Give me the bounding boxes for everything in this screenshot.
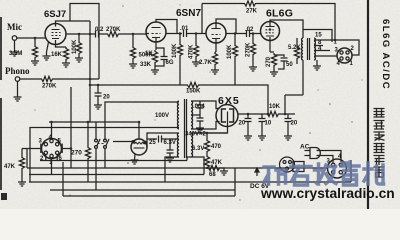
resistor 150K bbox=[186, 82, 200, 87]
socket P1 speaker bbox=[337, 48, 352, 63]
wire tap 15 bbox=[314, 39, 335, 41]
wire winding lower-right bottom bbox=[191, 157, 204, 175]
wire HV center tap bbox=[191, 114, 200, 116]
resistor 5.2K screen bbox=[296, 38, 298, 46]
wire winding lower-left top bbox=[147, 133, 179, 139]
svg-text:25: 25 bbox=[149, 140, 156, 146]
ground cap 20 first bbox=[97, 96, 99, 105]
ground after 68 bbox=[221, 168, 224, 171]
wire phono to artery bbox=[54, 78, 99, 80]
wire HV top tap bbox=[191, 101, 220, 109]
svg-text:100K: 100K bbox=[227, 44, 233, 59]
svg-text:.004: .004 bbox=[193, 104, 205, 110]
plug AC bbox=[305, 148, 321, 159]
ground under 100K bbox=[78, 55, 80, 58]
ground under 2.7K bbox=[214, 66, 216, 70]
watermark char ji bbox=[364, 163, 384, 184]
wire NFB to output bbox=[257, 4, 335, 41]
resistor 47K bias bbox=[206, 153, 208, 155]
svg-text:5.2K: 5.2K bbox=[288, 45, 301, 51]
svg-text:20: 20 bbox=[239, 121, 246, 127]
ground under Mic jack bbox=[11, 52, 19, 56]
ground under 3.5M bbox=[34, 59, 36, 61]
wire cap to 6L6G grid bbox=[250, 33, 261, 35]
label side CJK hatch glyphs bbox=[374, 109, 385, 178]
wire tap 8 bbox=[314, 45, 323, 47]
svg-text:470: 470 bbox=[211, 144, 222, 150]
svg-text:270: 270 bbox=[266, 56, 272, 67]
svg-text:6G: 6G bbox=[166, 60, 174, 66]
wire J2 to ground bbox=[17, 81, 19, 97]
watermark logo crystalradio bbox=[264, 162, 384, 185]
wire cathode 6L6G bbox=[270, 41, 274, 53]
wire plate 6L6G to OPT bbox=[270, 20, 303, 38]
svg-text:1K: 1K bbox=[145, 51, 153, 57]
scan speckles bbox=[34, 4, 362, 200]
ground under 470K bbox=[195, 58, 197, 62]
svg-text:3.5M: 3.5M bbox=[9, 51, 22, 57]
capacitor 20b filter bbox=[287, 114, 289, 118]
wire 270 to bus bbox=[87, 160, 89, 182]
wire socket top pin up bbox=[51, 122, 53, 139]
ground cap10 bbox=[261, 122, 263, 137]
node DC arrow bbox=[255, 168, 259, 176]
watermark char kuang bbox=[264, 167, 286, 184]
ground small lower bbox=[169, 153, 171, 158]
svg-text:AC: AC bbox=[300, 144, 310, 151]
wire plate loop 6SN7a bbox=[156, 20, 177, 34]
resistor 270K series bbox=[106, 31, 120, 36]
svg-text:0.2: 0.2 bbox=[95, 27, 104, 33]
capacitor 6G bypass bbox=[156, 48, 164, 56]
resistor 27K NFB bbox=[243, 1, 257, 6]
resistor 47K bbox=[21, 149, 23, 157]
ground under 33K bbox=[154, 64, 156, 70]
wire socket left bbox=[22, 148, 42, 150]
wire cap to resistor bbox=[99, 33, 106, 35]
wire lamp top bbox=[138, 122, 140, 139]
wire bus right bbox=[200, 85, 268, 114]
svg-text:100K: 100K bbox=[72, 39, 78, 54]
wire B+ bus bbox=[90, 84, 186, 86]
tube V4 6X5 bbox=[216, 105, 238, 127]
wire plate to cap bbox=[226, 33, 246, 35]
wire phono to resistor bbox=[20, 78, 40, 80]
svg-text:6SN7: 6SN7 bbox=[176, 8, 201, 19]
wire Mic to grid node bbox=[17, 37, 45, 39]
svg-text:270K: 270K bbox=[42, 84, 57, 90]
wire plate 6SN7a bbox=[166, 33, 182, 35]
wire B+ artery vertical bbox=[89, 21, 91, 122]
watermark char shou bbox=[315, 164, 337, 184]
wire OPT top to socket bbox=[303, 30, 332, 43]
socket X3 small bbox=[280, 157, 305, 172]
ground under 270K bbox=[252, 56, 254, 67]
svg-text:100K: 100K bbox=[172, 43, 178, 58]
resistor 270 heater bbox=[85, 146, 90, 160]
wire socket right bbox=[62, 148, 72, 150]
wire plate loop 6SN7b bbox=[216, 19, 236, 34]
resistor 100K interstage bbox=[179, 34, 181, 44]
svg-text:6L6G: 6L6G bbox=[266, 8, 293, 20]
resistor 270K phono bbox=[40, 76, 54, 81]
wire 270 drop bbox=[87, 122, 89, 146]
ground under lamp bbox=[134, 154, 137, 160]
capacitor 20a filter bbox=[247, 114, 249, 118]
wire heater bus y122 bbox=[49, 121, 139, 123]
wire bus B1 bbox=[40, 155, 191, 161]
lamp pilot bbox=[113, 139, 147, 155]
wire to 6SN7 grid bbox=[120, 33, 146, 35]
wire box right bbox=[57, 155, 235, 197]
wire to grid 6SN7b bbox=[187, 33, 206, 35]
resistor 270 cathode bbox=[271, 53, 276, 67]
resistor 270K grid 6L6G bbox=[252, 34, 254, 43]
wire cap to winding bbox=[162, 139, 179, 150]
capacitor 0.2 bbox=[96, 31, 99, 38]
svg-text:270K: 270K bbox=[246, 42, 252, 57]
wire HV bottom tap bbox=[191, 122, 220, 130]
ground under .004 bbox=[196, 128, 204, 132]
ground under 47K bbox=[21, 170, 23, 182]
wire cathode bbox=[56, 45, 67, 48]
capacitor .01 bbox=[184, 30, 187, 37]
wire J1 to ground bbox=[14, 40, 16, 52]
svg-text:.01: .01 bbox=[180, 26, 189, 32]
wire bus B5 bbox=[50, 189, 235, 191]
transformer T1 power bbox=[177, 99, 192, 158]
watermark char yin bbox=[341, 162, 359, 185]
wire cathode 6SN7a bbox=[155, 42, 156, 50]
ground under OPT bbox=[316, 60, 318, 66]
svg-text:6L6G AC/DC: 6L6G AC/DC bbox=[380, 19, 391, 90]
ground cap20a bbox=[247, 122, 249, 137]
wire 100K decoup to bus bbox=[234, 58, 236, 85]
switch S2 bbox=[104, 139, 106, 140]
switch S1 bbox=[95, 122, 97, 139]
wire bus B4 bbox=[29, 160, 351, 182]
resistor 470 bbox=[204, 139, 209, 153]
svg-text:20: 20 bbox=[103, 95, 110, 101]
resistor 500K volume bbox=[132, 34, 134, 46]
socket X2 AC input bbox=[328, 159, 347, 178]
resistor 10K bbox=[266, 111, 280, 116]
tube V2a 6SN7 first triode bbox=[146, 22, 166, 42]
jack J2 Phono bbox=[15, 77, 20, 82]
svg-text:470K: 470K bbox=[189, 44, 195, 59]
svg-text:20: 20 bbox=[291, 121, 298, 127]
gang link dashed bbox=[98, 143, 104, 145]
wire screen drop bbox=[98, 34, 100, 79]
wire plate signal bbox=[66, 33, 95, 35]
tube V2b 6SN7 second triode bbox=[206, 23, 226, 43]
ground cap20b bbox=[287, 122, 289, 137]
watermark url text bbox=[260, 186, 395, 201]
wire bus B3 bbox=[29, 158, 204, 175]
capacitor .02 bbox=[247, 30, 250, 37]
svg-text:50: 50 bbox=[286, 62, 293, 68]
svg-text:6.3V: 6.3V bbox=[192, 146, 204, 152]
svg-text:.02: .02 bbox=[245, 27, 254, 33]
wire plate top to B rail bbox=[56, 21, 91, 24]
resistor 68 bbox=[206, 168, 208, 169]
wire primary bottom bbox=[30, 128, 179, 183]
wire B+ out bbox=[238, 113, 266, 115]
socket X1 rectifier bottom view bbox=[41, 139, 62, 159]
svg-text:47K: 47K bbox=[4, 164, 16, 170]
resistor 2.7K bbox=[212, 52, 217, 66]
svg-text:150K: 150K bbox=[186, 89, 201, 95]
svg-text:Phono: Phono bbox=[5, 66, 30, 76]
svg-text:270K: 270K bbox=[106, 27, 121, 33]
resistor 100K decoup bbox=[234, 34, 236, 45]
wire vertical x71 bbox=[70, 87, 72, 168]
resistor 16K bbox=[63, 47, 68, 61]
capacitor 50 bypass bbox=[274, 55, 284, 57]
capacitor 25 bbox=[159, 136, 162, 143]
svg-text:6SJ7: 6SJ7 bbox=[44, 9, 66, 20]
scan border left bbox=[0, 17, 2, 190]
capacitor 20 first bbox=[97, 85, 99, 93]
wire S2 down bbox=[104, 148, 106, 168]
svg-text:270: 270 bbox=[71, 150, 82, 157]
wire NFB left drop bbox=[201, 4, 203, 34]
resistor 100K stage1 bbox=[78, 34, 80, 41]
ground under 270 bbox=[273, 67, 275, 72]
resistor 470K grid bbox=[195, 34, 197, 45]
wire winding lower-left bottom bbox=[165, 157, 179, 182]
svg-text:15: 15 bbox=[315, 33, 322, 39]
wire 6X5 heater down bbox=[191, 119, 228, 133]
ground under 500K bbox=[132, 60, 134, 64]
svg-text:10K: 10K bbox=[269, 104, 281, 110]
capacitor 10 filter bbox=[261, 114, 263, 118]
resistor 3.5M bbox=[34, 38, 36, 45]
capacitor .004 pair bbox=[199, 101, 201, 105]
wire tap 4 bbox=[314, 50, 330, 52]
wire S1 down bbox=[95, 148, 97, 190]
watermark char shi bbox=[291, 167, 311, 186]
svg-text:www.crystalradio.cn: www.crystalradio.cn bbox=[260, 186, 395, 201]
svg-text:16K: 16K bbox=[51, 52, 63, 58]
svg-text:10: 10 bbox=[265, 121, 272, 127]
transformer T2 output bbox=[302, 38, 316, 60]
ground under Phono jack bbox=[14, 97, 22, 101]
wire plug to socket pins bbox=[317, 151, 342, 164]
svg-text:33K: 33K bbox=[140, 62, 152, 68]
tube V1 6SJ7 bbox=[45, 24, 66, 45]
wire cathode 6SN7b bbox=[215, 43, 216, 52]
jack J1 Mic bbox=[12, 36, 17, 41]
svg-text:68: 68 bbox=[209, 172, 216, 178]
wire socket feed bbox=[335, 40, 359, 55]
wire heater line right bbox=[191, 133, 227, 139]
ground stub under tube bbox=[47, 42, 49, 56]
svg-text:Mic: Mic bbox=[7, 22, 22, 32]
scan blob bottom-left bbox=[1, 193, 7, 200]
tube V3 6L6G bbox=[261, 22, 280, 41]
wire primary top bbox=[105, 102, 179, 140]
wire tap common bbox=[314, 55, 337, 57]
ground under 16K bbox=[65, 61, 67, 63]
wire OPT bottom to B+ bbox=[285, 60, 303, 114]
wire lamp cluster bbox=[147, 139, 157, 147]
svg-text:100V: 100V bbox=[155, 113, 169, 119]
resistor 33K bbox=[152, 50, 157, 64]
wire 100K to bus bbox=[179, 57, 181, 85]
scan border right bbox=[367, 0, 369, 209]
wire bus B2 bbox=[27, 149, 327, 169]
wire screen loop top bbox=[70, 4, 99, 35]
svg-text:2.7K: 2.7K bbox=[199, 60, 212, 66]
wire after 10K bbox=[280, 113, 295, 115]
svg-text:47K: 47K bbox=[211, 160, 223, 166]
wire NFB top run bbox=[202, 3, 243, 5]
svg-text:27K: 27K bbox=[246, 9, 258, 15]
capacitor small lower bbox=[167, 150, 174, 153]
